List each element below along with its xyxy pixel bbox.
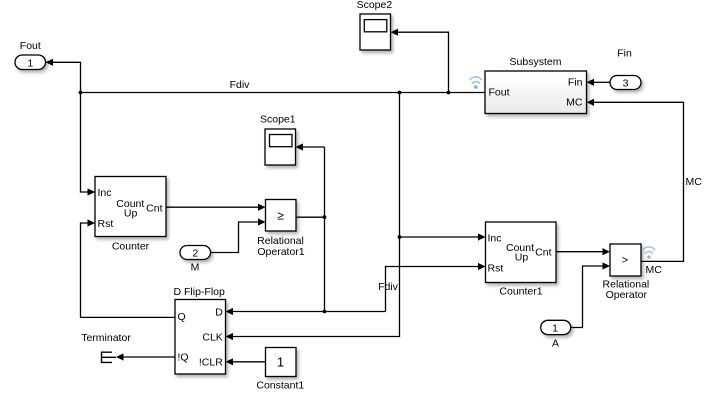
node junction at DFF.D wire [323,310,327,314]
svg-text:≥: ≥ [277,208,284,222]
svg-text:1: 1 [277,355,284,370]
svg-text:D: D [215,306,223,318]
svg-text:Counter: Counter [112,240,150,252]
wire Scope2 branch [391,29,449,93]
node junction Fdiv at Fout branch [79,91,83,95]
svg-text:Operator: Operator [606,289,648,301]
scope block Scope1 [260,113,296,165]
constant block Constant1 [256,348,304,392]
counter block Counter [95,177,166,253]
svg-text:MC: MC [686,176,703,188]
svg-text:A: A [552,337,559,349]
svg-text:Cnt: Cnt [535,247,551,259]
wire RelOp1 output to Scope1 / DFF.D / Counter1.Rst [226,143,486,315]
svg-text:1: 1 [27,58,33,70]
d flip-flop block DFF [174,286,226,374]
relational operator block RelOp (>) [603,244,650,301]
wireless badge at RelOp output [643,247,655,259]
svg-text:Inc: Inc [98,187,112,199]
wire RelOp output MC to Subsystem.MC [587,99,684,262]
svg-text:Constant1: Constant1 [256,380,304,392]
relational operator block RelOp1 (>=) [257,200,305,259]
svg-text:Fout: Fout [489,87,510,99]
svg-text:Q: Q [178,311,186,323]
scope block Scope2 [357,0,393,50]
node junction Fdiv at Counter1.Inc [398,235,402,239]
svg-text:MC: MC [646,264,663,276]
wire DFF.Q to Counter.Rst [81,219,176,317]
wire Fin port to Subsystem.Fin [587,79,611,86]
svg-text:Rst: Rst [98,218,114,230]
svg-text:!Q: !Q [178,351,189,363]
svg-text:Inc: Inc [488,233,502,245]
svg-text:Cnt: Cnt [146,202,162,214]
svg-text:Up: Up [515,251,529,263]
svg-text:Terminator: Terminator [81,332,131,344]
svg-text:1: 1 [552,322,558,334]
svg-text:M: M [191,262,200,274]
svg-text:Scope1: Scope1 [260,113,296,125]
wire Counter1.Cnt to RelOp input 1 [556,248,610,255]
wire DFF.!Q to Terminator [116,353,175,360]
node junction Fdiv vertical top [398,91,402,95]
svg-text:Fin: Fin [568,77,583,89]
svg-text:Counter1: Counter1 [499,286,542,298]
svg-text:Fdiv: Fdiv [378,281,399,293]
wire Counter.Cnt to RelOp1 input 1 [166,204,266,211]
subsystem block Subsystem [485,56,587,114]
svg-text:Subsystem: Subsystem [510,56,562,68]
svg-text:Up: Up [124,208,138,220]
counter block Counter1 [486,222,557,298]
svg-text:Operator1: Operator1 [257,246,304,258]
node junction Fdiv-Scope2 [447,91,451,95]
wire Fdiv vertical branch to Counter1.Inc and DFF.CLK [226,93,486,341]
input port M (port 2) [180,246,211,274]
svg-text:Rst: Rst [488,263,504,275]
wireless badge at Subsystem.Fout [470,77,482,89]
svg-text:Fout: Fout [20,40,41,52]
svg-text:>: > [622,254,628,266]
svg-text:D Flip-Flop: D Flip-Flop [174,286,226,298]
input port A (port 1) [541,320,571,349]
svg-text:!CLR: !CLR [199,357,223,369]
svg-text:Fdiv: Fdiv [230,79,251,91]
svg-text:Scope2: Scope2 [357,0,393,11]
svg-text:3: 3 [623,78,629,90]
terminator block Terminator [81,332,131,362]
output port Fout (port 1) [15,40,46,70]
wire Constant1 to DFF.!CLR [226,358,266,365]
wire A port to RelOp input 2 [571,262,610,327]
svg-text:CLK: CLK [202,332,222,344]
node junction RelOp1 output [323,215,327,219]
svg-text:Fin: Fin [617,48,632,60]
svg-text:MC: MC [566,96,583,108]
wire M port to RelOp1 input 2 [211,218,266,252]
wire Fdiv main horizontal (Subsystem.Fout to Fout port / Counter.Inc) [46,59,486,196]
input port Fin (port 3) [610,48,641,90]
svg-text:2: 2 [192,248,198,260]
